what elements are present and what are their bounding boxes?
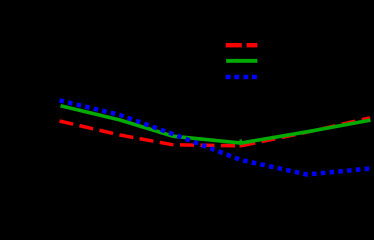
series 2 vertex tick at x=241 (green) xyxy=(239,140,241,145)
series 1 vertex tick at x=241 (red) xyxy=(239,143,241,148)
legend key: green solid sample xyxy=(226,59,257,63)
series 1: red dashed line xyxy=(60,118,371,146)
legend key: blue dotted sample xyxy=(226,75,257,79)
series 3: blue dotted line xyxy=(60,100,372,174)
legend key: red dashed sample xyxy=(226,43,258,47)
series 2: green solid line xyxy=(61,106,371,143)
